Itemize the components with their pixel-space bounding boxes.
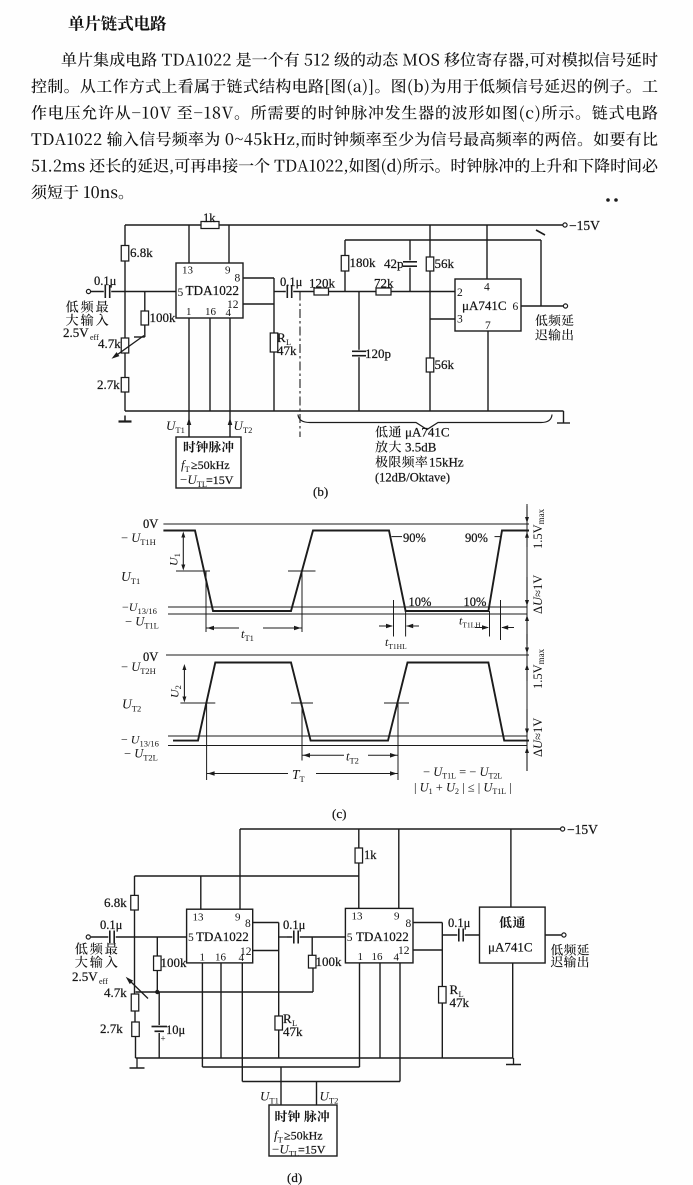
svg-text:16: 16: [372, 951, 384, 963]
svg-text:47k: 47k: [277, 343, 297, 358]
wire pin1 second clock (d): [359, 963, 361, 1067]
wire pin8 second (d): [413, 922, 442, 924]
terminal -15V (b): [563, 223, 567, 227]
input terminal (d): [86, 935, 90, 939]
resistor 120k (b): [314, 288, 329, 295]
potentiometer 4.7k (b): [124, 292, 126, 338]
svg-text:13: 13: [352, 911, 364, 923]
svg-text:ΔU≈1V: ΔU≈1V: [531, 718, 545, 757]
waveform U_T1 low reference lines: [168, 606, 527, 608]
svg-text:0.1μ: 0.1μ: [280, 275, 303, 289]
svg-text:μA741C: μA741C: [405, 425, 450, 440]
waveform U_T1 0V reference line: [163, 523, 529, 525]
svg-text:(d): (d): [287, 1170, 302, 1185]
svg-text:9: 9: [394, 911, 400, 923]
print specks: [606, 198, 610, 202]
resistor 56k lower (b): [429, 319, 431, 411]
ground symbol (b): [124, 416, 126, 422]
resistor RL second (d): [441, 950, 443, 1058]
svg-text:≥50kHz: ≥50kHz: [191, 458, 230, 472]
capacitor 42p (b): [409, 240, 411, 292]
wire pin12 first (d): [253, 950, 279, 952]
svg-text:TT: TT: [292, 767, 306, 784]
svg-text:100k: 100k: [316, 954, 343, 969]
svg-text:− UT2L: − UT2L: [124, 747, 158, 763]
svg-text:90%: 90%: [403, 531, 426, 545]
clock generator box (d): [269, 1105, 337, 1156]
svg-text:UT2: UT2: [320, 1089, 339, 1106]
mid-level ticks U_T2: [180, 702, 215, 704]
svg-text:9: 9: [225, 265, 231, 277]
dimension t_T1LH: [489, 611, 491, 637]
wire pin12 second (d): [413, 949, 442, 951]
label 90% first: [392, 536, 403, 538]
capacitor 120p (b): [358, 292, 360, 412]
resistor 180k (b): [344, 240, 346, 256]
svg-text:tT1HL: tT1HL: [385, 635, 407, 651]
svg-text:6: 6: [513, 301, 519, 313]
svg-text:UT2: UT2: [122, 697, 141, 714]
svg-text:0.1μ: 0.1μ: [100, 918, 123, 932]
IC U1 TDA1022 (b): [176, 263, 243, 318]
svg-text:10%: 10%: [409, 595, 432, 609]
resistor RL first (d): [278, 951, 280, 1059]
wire bottom ground rail (b): [125, 410, 564, 412]
terminal -15V (d): [561, 827, 565, 831]
resistor RL 47k (b): [273, 304, 275, 333]
IC U4 TDA1022 second (d): [345, 908, 413, 963]
svg-text:tT1LH: tT1LH: [459, 614, 481, 630]
wire ground rail (d): [136, 1057, 514, 1059]
wire interstage (d): [279, 936, 287, 938]
wire pin16 second ground (d): [379, 963, 381, 1058]
svg-text:1k: 1k: [203, 211, 216, 225]
svg-text:12: 12: [398, 945, 410, 957]
resistor 56k upper (b): [429, 225, 431, 319]
svg-text:56k: 56k: [435, 357, 455, 372]
svg-text:tT1: tT1: [241, 627, 254, 643]
ground symbol right (d): [513, 1058, 515, 1065]
svg-text:=15V: =15V: [206, 473, 234, 487]
wire pin1 clock (b): [188, 318, 190, 437]
wire feedback line (b): [345, 239, 541, 241]
wire pin3 741 (b): [430, 318, 455, 320]
dimension U_2 arrow: [183, 667, 185, 701]
dimension U_1 arrow: [182, 534, 184, 568]
wire pin9 to rail (b): [228, 225, 230, 263]
dimension T_T: [206, 703, 208, 780]
svg-text:μA741C: μA741C: [462, 298, 507, 313]
paragraph text: [62, 52, 658, 69]
svg-text:1: 1: [358, 951, 364, 963]
wire pin4 clock (b): [229, 318, 231, 437]
clock generator box (b): [176, 437, 241, 488]
svg-text:−15V: −15V: [569, 218, 600, 233]
svg-text:− UT1H: − UT1H: [121, 531, 156, 547]
svg-text:4: 4: [484, 282, 490, 294]
svg-text:56k: 56k: [435, 256, 455, 271]
svg-text:3.5dB: 3.5dB: [405, 440, 437, 455]
svg-text:TDA1022: TDA1022: [196, 929, 249, 944]
wire opamp supply (d): [510, 829, 512, 907]
wire pin4 first clock (d): [241, 963, 243, 1082]
svg-text:100k: 100k: [161, 955, 188, 970]
svg-text:0.1μ: 0.1μ: [283, 918, 306, 932]
svg-text:− UT1L = − UT2L: − UT1L = − UT2L: [423, 765, 502, 781]
svg-text:(c): (c): [332, 806, 346, 821]
wire pin13 to rail (b): [188, 225, 190, 263]
wire UT1 bus (d): [202, 1066, 359, 1068]
svg-text:0.1μ: 0.1μ: [94, 274, 117, 288]
svg-text:120k: 120k: [309, 276, 336, 291]
wire pin13 first (d): [200, 876, 202, 909]
svg-text:1k: 1k: [364, 848, 377, 862]
wire pin8 first (d): [253, 922, 279, 924]
wire pin1 first clock (d): [201, 963, 203, 1067]
svg-text:μA741C: μA741C: [488, 940, 533, 955]
svg-text:4: 4: [226, 307, 232, 319]
svg-text:2.5V: 2.5V: [72, 969, 98, 984]
svg-text:ΔU≈1V: ΔU≈1V: [531, 575, 545, 614]
brace 低通 uA741C (b): [298, 415, 552, 430]
svg-text:tT2: tT2: [346, 750, 359, 766]
resistor 6.8k (b): [124, 225, 126, 292]
svg-text:7: 7: [485, 320, 491, 332]
svg-text:≥50kHz: ≥50kHz: [284, 1129, 323, 1143]
resistor 100k second (d): [311, 937, 313, 955]
wire input line (d): [91, 936, 187, 938]
svg-text:TDA1022: TDA1022: [356, 929, 409, 944]
svg-text:4.7k: 4.7k: [104, 985, 127, 1000]
svg-text:180k: 180k: [350, 255, 377, 270]
wire UT2 bus (d): [242, 1081, 400, 1083]
wire pin7 741 (b): [487, 331, 489, 411]
svg-text:13: 13: [182, 265, 194, 277]
svg-text:72k: 72k: [374, 276, 394, 291]
svg-text:| U1 + U2 | ≤ | UT1L |: | U1 + U2 | ≤ | UT1L |: [414, 781, 512, 797]
svg-text:6.8k: 6.8k: [130, 245, 153, 260]
wire pin4 second clock (d): [399, 963, 401, 1082]
mid-level tick first rise: [288, 570, 316, 572]
svg-text:1.5Vmax: 1.5Vmax: [531, 648, 546, 689]
svg-text:90%: 90%: [465, 531, 488, 545]
wire second rail (d): [135, 875, 359, 877]
capacitor 10u electrolytic (d): [158, 992, 160, 1058]
capacitor 0.1u input (b): [104, 285, 111, 298]
svg-text:1.5Vmax: 1.5Vmax: [531, 508, 546, 549]
wire output (d): [545, 934, 561, 936]
dimension 1.5Vmax U_T2: [526, 634, 528, 648]
IC U3 TDA1022 first (d): [187, 909, 253, 963]
svg-text:42p: 42p: [384, 256, 404, 271]
capacitor 0.1u input (d): [108, 931, 115, 944]
svg-text:16: 16: [215, 952, 227, 964]
svg-text:=15V: =15V: [298, 1143, 326, 1157]
wire pin16 first ground (d): [220, 963, 222, 1058]
svg-text:UT2: UT2: [234, 418, 253, 435]
boundary dash-dot line (b): [299, 292, 301, 438]
svg-text:+: +: [161, 1034, 166, 1044]
label 低频最大输入 2.5Veff (d): [75, 942, 117, 954]
wire node A (b): [329, 291, 377, 293]
resistor 100k (b): [144, 292, 146, 312]
wire to pin2 (b): [391, 291, 455, 293]
dimension t_T1HL: [393, 600, 395, 637]
svg-text:5: 5: [347, 932, 353, 944]
output terminal (b): [563, 304, 567, 308]
wire output to filter (b): [274, 291, 283, 293]
print artifact stroke: [536, 230, 545, 235]
svg-text:3: 3: [457, 314, 463, 326]
svg-text:UT1: UT1: [166, 418, 185, 435]
arrow UT1 (b): [187, 418, 192, 425]
input terminal (b): [86, 289, 90, 293]
wire top supply rail (b): [125, 224, 565, 226]
dimension t_T2: [301, 703, 303, 761]
label 90% second: [495, 536, 501, 538]
svg-text:9: 9: [235, 912, 241, 924]
ground symbol left (d): [136, 1058, 138, 1068]
resistor 2.7k (b): [121, 378, 129, 393]
output terminal (d): [562, 933, 566, 937]
svg-text:47k: 47k: [450, 995, 470, 1010]
wire bias line (d): [136, 991, 314, 993]
waveform U_T1 trace: [163, 531, 529, 612]
label 低频最大输入 2.5Veff (b): [66, 300, 108, 312]
svg-text:− UT1L: − UT1L: [125, 615, 159, 631]
dimension t_T1: [205, 571, 207, 632]
svg-text:5: 5: [178, 287, 184, 299]
resistor 72k (b): [376, 288, 391, 295]
waveform U_T2 low reference lines: [168, 735, 527, 737]
svg-text:2.5V: 2.5V: [63, 325, 89, 340]
svg-text:(12dB/Oktave): (12dB/Oktave): [375, 471, 450, 485]
potentiometer 4.7k (d): [134, 937, 136, 994]
svg-text:10μ: 10μ: [166, 1023, 186, 1037]
svg-text:4.7k: 4.7k: [98, 336, 121, 351]
resistor 2.7k (d): [132, 1022, 140, 1037]
wire input line (b): [91, 291, 176, 293]
arrow UT2 (b): [228, 418, 233, 425]
capacitor 0.1u output (d): [442, 934, 479, 936]
svg-text:UT1: UT1: [260, 1089, 279, 1106]
svg-text:0.1μ: 0.1μ: [448, 916, 471, 930]
ground stub right (b): [563, 411, 565, 423]
svg-text:47k: 47k: [283, 1024, 303, 1039]
page title 单片链式电路: [68, 15, 166, 31]
svg-text:0V: 0V: [143, 650, 158, 664]
wire pin4 741 (b): [486, 225, 488, 279]
wire pin12 (b): [243, 303, 274, 305]
dimension dU 1V U_T1: [526, 577, 528, 601]
svg-text:10%: 10%: [464, 595, 487, 609]
svg-text:15kHz: 15kHz: [429, 455, 464, 470]
dimension 1.5Vmax U_T1: [526, 506, 528, 518]
wire output (b): [521, 305, 565, 307]
capacitor 0.1u interstage (d): [287, 936, 345, 938]
lowpass box 低通 uA741C (d): [480, 907, 546, 963]
svg-text:U2: U2: [168, 685, 184, 698]
waveform U_T2 trace: [173, 663, 529, 741]
wire pin16 ground (b): [209, 318, 211, 411]
svg-text:16: 16: [205, 306, 217, 318]
wire pin9 first to rail (d): [239, 829, 241, 909]
svg-text:1: 1: [200, 952, 206, 964]
capacitor 0.1u coupling (b): [283, 291, 314, 293]
op-amp U2 uA741C (b): [455, 279, 521, 331]
svg-text:4: 4: [394, 952, 400, 964]
label lowpass filter specs (b): [375, 426, 401, 438]
svg-text:2.7k: 2.7k: [100, 1021, 123, 1036]
mid-level tick first fall: [176, 570, 210, 572]
wire pin8 (b): [243, 277, 274, 279]
svg-text:6.8k: 6.8k: [104, 895, 127, 910]
svg-text:−15V: −15V: [567, 822, 598, 837]
svg-text:0V: 0V: [143, 517, 158, 531]
resistor 1k (d): [358, 829, 360, 908]
wire pin9 second to rail (d): [398, 829, 400, 908]
svg-text:5: 5: [188, 932, 194, 944]
svg-text:U1: U1: [167, 553, 183, 566]
svg-text:1: 1: [186, 306, 192, 318]
svg-text:UT1: UT1: [121, 569, 140, 586]
svg-text:(b): (b): [313, 484, 328, 499]
resistor 1k (b): [201, 222, 219, 229]
svg-text:2.7k: 2.7k: [97, 377, 120, 392]
svg-text:4: 4: [239, 952, 245, 964]
wire top supply rail (d): [240, 828, 563, 830]
resistor 6.8k (d): [134, 876, 136, 937]
resistor 100k first (d): [156, 937, 158, 956]
wire pin7 opamp (d): [512, 963, 514, 1058]
svg-text:120p: 120p: [365, 346, 391, 361]
waveform U_T2 0V reference line: [166, 654, 529, 656]
svg-text:100k: 100k: [150, 310, 177, 325]
dimension dU 1V U_T2: [526, 709, 528, 730]
annotation vertical line right: [526, 504, 528, 756]
svg-text:TDA1022: TDA1022: [186, 283, 239, 298]
svg-text:13: 13: [193, 912, 205, 924]
